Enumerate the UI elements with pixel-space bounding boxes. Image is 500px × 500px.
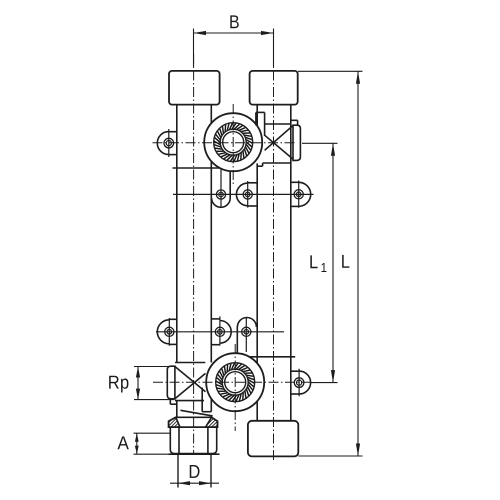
bottom boss ear <box>237 317 256 353</box>
top tee shoulder <box>173 167 221 169</box>
top union tab right <box>291 120 301 160</box>
top rail ear right <box>291 181 311 208</box>
outlet pipe D <box>178 454 211 487</box>
label D <box>190 465 200 478</box>
bottom sleeve right pipe <box>248 421 298 457</box>
left pipe <box>177 105 212 418</box>
label L <box>342 255 349 268</box>
compression nut <box>169 410 220 454</box>
label A <box>117 436 128 449</box>
label B <box>230 15 238 28</box>
left cap <box>169 71 220 105</box>
bottom crossing X fitting <box>175 363 211 412</box>
dimension D <box>170 481 219 485</box>
bottom rail line <box>156 331 284 333</box>
bottom union nut U2 <box>206 353 264 411</box>
bottom rail ear left <box>157 318 177 346</box>
label Rp <box>109 376 128 393</box>
top union nut U1 <box>204 113 262 171</box>
top rail line <box>173 193 314 195</box>
bottom rail ear middle <box>211 316 231 345</box>
top boss ear <box>212 169 231 207</box>
dimension A <box>134 433 171 454</box>
right cap <box>250 71 298 105</box>
dimension B <box>194 29 274 67</box>
dimension Rp <box>134 367 175 400</box>
right pipe <box>257 105 291 421</box>
centerline bottom union axis <box>234 344 236 431</box>
bottom right tab ear <box>291 369 311 397</box>
centerline right pipe <box>273 54 275 462</box>
centerline left pipe <box>193 54 195 455</box>
centerline bottom fitting horizontal <box>153 381 312 383</box>
label L1 <box>310 255 326 272</box>
top crossing X fitting <box>256 112 293 166</box>
centerline top union axis <box>232 104 234 184</box>
Rp socket tab left <box>167 366 177 404</box>
top rail ear middle <box>236 181 257 208</box>
top left tab ear <box>157 129 177 157</box>
dimension L <box>298 71 363 456</box>
dimension L1 <box>302 143 338 382</box>
centerline top fitting horizontal <box>153 142 297 144</box>
bottom tee shoulder <box>249 356 295 358</box>
